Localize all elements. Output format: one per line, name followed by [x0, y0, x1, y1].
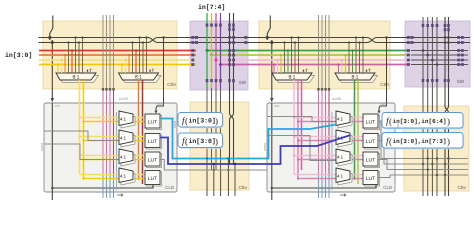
wire maroon tile1 vertical	[113, 90, 115, 176]
CBh1 M1 input drop dark a	[68, 43, 70, 74]
svg-text:LUT: LUT	[148, 139, 157, 145]
SW2 vertical wires from top	[422, 17, 424, 196]
CLB1 4:1 mux row3	[119, 149, 135, 166]
SW2 interior junction dots	[422, 49, 425, 52]
CLB2 4:1 mux row3	[336, 149, 352, 166]
svg-text:T: T	[89, 68, 92, 73]
CLB2 LUT row2	[363, 134, 380, 150]
CBh2 M2 input drop yellowgreen	[345, 55, 347, 73]
wire in6 magenta vertical	[215, 13, 217, 60]
arrow south tile2	[340, 194, 346, 197]
logic block CLB1 background	[44, 103, 177, 192]
CLB2 pink comb branches row1	[294, 117, 363, 119]
wire in2 pale yellow	[39, 59, 196, 61]
CLB1 LUT row3	[145, 152, 162, 168]
CBh bottom edge connector squares tile2	[317, 88, 330, 91]
svg-text:LUT: LUT	[148, 120, 157, 126]
junction diamond green	[205, 49, 209, 53]
arrow into CLB2 cin	[270, 98, 273, 103]
mux CBh1 M1 8:1 shadow	[59, 76, 99, 83]
mux CBh2 M1 8:1 shadow	[275, 76, 315, 83]
svg-text:LUT: LUT	[366, 176, 375, 182]
wire CBh1 M2 output dark red vertical	[142, 80, 144, 184]
svg-text:8:1: 8:1	[73, 75, 80, 81]
wire CBh2 M1 output pale pink comb vertical	[293, 80, 295, 175]
svg-text:in[3:0]: in[3:0]	[189, 138, 216, 145]
connection box CBh1 background	[43, 21, 177, 89]
wire LUT1 feedback to track1 tile1	[156, 38, 164, 114]
wire track crossover in CBh2	[367, 38, 377, 43]
wire CBh1 M1 output pale yellow comb vertical	[79, 80, 81, 175]
CBh1 M2 input drop pale yellow	[125, 60, 127, 73]
arrow south tile1	[117, 194, 123, 197]
wire in7 purple vertical	[220, 13, 222, 65]
SW2 horizontal continuation wires	[411, 50, 468, 52]
wire magenta track east of SW1	[221, 64, 411, 66]
CBh1 M2 input drop dark b	[139, 38, 141, 74]
CBh2 M1 input drop dark a	[284, 43, 286, 74]
wires north stubs tile1	[102, 15, 104, 90]
CBh2 M2 input drop dark b	[355, 38, 357, 74]
switch box SW2 background	[405, 21, 470, 87]
CLB1 west input wire a	[44, 131, 119, 141]
wire CBv1 dark blue crossing dots	[213, 163, 215, 165]
mux CBh1 M2 8:1 shadow	[121, 76, 161, 83]
wire CLB1 south exit	[51, 188, 53, 200]
wire dark blue LUT2 output	[160, 136, 350, 165]
svg-text:cin: cin	[55, 104, 60, 108]
CBh1 M1 input drop orange	[64, 55, 66, 73]
svg-text:in[7:4]: in[7:4]	[198, 4, 225, 11]
mux CBh2 M1 8:1 body	[272, 73, 312, 80]
CBv1 lower vertical wires	[206, 172, 208, 196]
CBh1 M1 input drop dark c	[78, 43, 80, 74]
svg-text:west: west	[381, 102, 388, 106]
junction diamond track2 x271.8	[270, 40, 274, 44]
svg-text:8:1: 8:1	[289, 75, 296, 81]
svg-text:CLB: CLB	[165, 185, 174, 190]
wire LUT4 feedback CLB1	[152, 185, 154, 188]
svg-text:8:1: 8:1	[352, 75, 359, 81]
wire yellowgreen track east of SW1	[212, 54, 411, 56]
mux CBh1 M2 T marker	[149, 69, 151, 71]
CBh1 M1 input drop pale yellow	[61, 60, 63, 73]
wire LUT1 feedback to track1 tile2	[379, 38, 387, 114]
f-box 3 f(in[3:0],in[6:4])	[382, 113, 464, 130]
wires north stubs tile2	[318, 15, 320, 90]
CBh2 M2 input drop dark d	[362, 38, 364, 74]
wire CBh2 M1 output pink comb vertical	[297, 80, 299, 179]
svg-text:4:1: 4:1	[120, 136, 127, 141]
CLB1 LUT row2	[145, 134, 162, 150]
junction diamond track2 x52.3	[50, 40, 54, 44]
mux CBh2 M2 8:1 shadow	[338, 76, 378, 83]
svg-text:LUT: LUT	[366, 120, 375, 126]
wire CBv1 light blue crossing dots	[206, 157, 208, 159]
CBh1 M2 input drop red	[135, 51, 137, 74]
CBh1 M1 input drop dark d	[82, 38, 84, 74]
CBh2 M2 input drop green	[352, 51, 354, 74]
svg-text:in[3:0],in[7:3]: in[3:0],in[7:3]	[393, 138, 447, 145]
junction dot CLB1 bottom	[51, 187, 53, 189]
mux CBh2 M1 T marker	[303, 69, 305, 71]
CLB2 4:1 mux row1	[336, 111, 352, 128]
CBh2 M1 input drop dark b	[291, 38, 293, 74]
wire CBh2 M1 output magenta vertical	[301, 80, 303, 170]
CBh2 M1 input drop dark d	[298, 38, 300, 74]
wire CLB2 south exit	[271, 188, 273, 200]
CLB2 west input wire a	[267, 117, 336, 122]
CLB1 4:1 mux row4	[119, 168, 135, 185]
svg-text:): )	[447, 116, 450, 126]
junction diamond purple to magenta	[219, 63, 223, 67]
svg-text:west: west	[158, 102, 165, 106]
mux CBh2 M2 8:1 body	[335, 73, 375, 80]
CBh2 M2 input drop dark c	[359, 43, 361, 74]
switch box SW1 background	[190, 21, 248, 90]
CBh1 M2 input drop orange	[128, 55, 130, 73]
wire horizontal track2	[39, 42, 149, 44]
SW2 squares on verticals top	[422, 24, 450, 31]
CLB1 LUT row1	[145, 114, 162, 130]
CBh bottom edge connector squares tile1	[102, 88, 115, 91]
arrow into CLB1 cin	[51, 98, 54, 103]
CLB1 4:1 mux row2	[119, 130, 135, 147]
svg-text:in[3:0]: in[3:0]	[5, 52, 32, 59]
junction dot CLB2 bottom	[271, 187, 273, 189]
CBh1 M2 input drop dark d	[146, 38, 148, 74]
svg-text:SW: SW	[239, 80, 247, 85]
CBh1 M2 input drop dark a	[132, 43, 134, 74]
wire in3 yellow	[39, 64, 196, 66]
wire light blue LUT1 output	[160, 119, 336, 159]
wire CBh2 M2 output green vertical	[354, 80, 356, 180]
wire in1 orange	[39, 54, 196, 56]
junction diamond track1 x267.3	[265, 35, 269, 39]
wire in5 yellowgreen vertical	[211, 13, 213, 55]
wire horizontal track1	[39, 37, 149, 39]
svg-text:4:1: 4:1	[120, 117, 127, 122]
svg-text:): )	[215, 116, 218, 126]
wires steel blue pair tile2	[331, 112, 333, 190]
CBh2 M2 input drop pale pink	[341, 60, 343, 73]
svg-text:west: west	[263, 142, 267, 151]
svg-text:north: north	[332, 96, 341, 101]
mux CBh1 M2 8:1 body	[119, 73, 159, 80]
svg-text:north: north	[119, 96, 128, 101]
SW2 squares on verticals bottom	[422, 79, 450, 82]
wire maroon tile2 vertical	[328, 90, 330, 176]
CLB2 pink comb branches row2	[294, 136, 363, 138]
CLB1 yellow comb branches row2	[80, 136, 146, 138]
svg-text:4:1: 4:1	[337, 117, 344, 122]
connection box CBh2 background	[259, 21, 390, 89]
svg-text:LUT: LUT	[366, 139, 375, 145]
CBh1 M2 input drop yellow	[121, 65, 123, 74]
CLB1 yellow comb branches row1	[80, 117, 146, 119]
wires south tile1 gray-blue	[102, 176, 104, 198]
wire gray east CLB1 to CLB2	[160, 160, 267, 171]
wire CBh1 M2 output orange vertical	[138, 80, 140, 180]
mux CBh1 M1 T marker	[87, 69, 89, 71]
CLB2 4:1 mux row4	[336, 168, 352, 185]
wires north tile2 pink verticals into CLB2	[318, 90, 320, 176]
junction diamond track1 x49.8	[48, 35, 52, 39]
SW1 switch squares	[191, 24, 247, 83]
CLB2 west input wire b	[267, 136, 336, 161]
svg-text:T: T	[305, 68, 308, 73]
wire CBh1 M1 output yellow comb vertical	[83, 80, 85, 179]
CBh1 M2 input drop dark c	[142, 43, 144, 74]
svg-text:CBv: CBv	[238, 185, 247, 190]
svg-text:SW: SW	[457, 79, 465, 84]
CLB1 yellow comb branches row3	[80, 155, 146, 157]
CLB2 LUT row3	[363, 152, 380, 168]
connection box CBv1 background	[190, 102, 249, 190]
wire LUT4 feedback CLB2	[375, 185, 377, 188]
f-box 2 f(in[3:0])	[178, 133, 224, 149]
wire vertical feed at left with jog	[50, 16, 53, 41]
CLB1 yellow comb branches row4	[80, 174, 146, 176]
CLB2 LUT row4	[363, 171, 380, 187]
junction diamond yellowgreen	[210, 53, 214, 57]
svg-text:LUT: LUT	[148, 158, 157, 164]
CLB1 LUT row4	[145, 171, 162, 187]
CBh1 M1 input drop dark b	[75, 38, 77, 74]
wire CLB1 internal left/bottom	[52, 103, 153, 188]
wire SW1 vertical continuation colored then gray	[206, 51, 208, 89]
svg-text:east: east	[396, 120, 400, 128]
svg-text:T: T	[368, 68, 371, 73]
CBh2 M1 input drop pale pink	[277, 60, 279, 73]
wire green track east of SW1	[207, 50, 410, 52]
svg-text:CLB: CLB	[383, 185, 392, 190]
svg-text:in[3:0],in[6:4]: in[3:0],in[6:4]	[393, 118, 447, 125]
wire CBh2 M2 output yellowgreen vertical	[357, 80, 359, 184]
CBv2 crossing dots	[427, 157, 429, 159]
CLB2 4:1 mux row2	[336, 130, 352, 147]
CBh2 M2 input drop dark a	[348, 43, 350, 74]
svg-text:LUT: LUT	[148, 176, 157, 182]
f-box 4 f(in[3:0],in[7:3])	[382, 133, 464, 150]
svg-text:8:1: 8:1	[135, 75, 142, 81]
CBh2 M1 input drop dark c	[294, 43, 296, 74]
wires steel blue pair tile1	[116, 112, 118, 190]
svg-text:4:1: 4:1	[337, 155, 344, 160]
svg-text:in[3:0]: in[3:0]	[189, 118, 216, 125]
junction diamond magenta vertical to pale pink	[214, 58, 218, 62]
svg-text:T: T	[152, 68, 155, 73]
wire CBv1 gray crossing dots	[213, 169, 215, 171]
svg-text:): )	[215, 136, 218, 146]
CLB2 pink comb branches row3	[294, 155, 363, 157]
wires south tile2 gray-blue	[318, 176, 320, 198]
svg-text:): )	[447, 136, 450, 146]
wire in4 green vertical	[206, 13, 208, 51]
mux CBh1 M1 8:1 body	[56, 73, 96, 80]
CBh2 M2 input drop magenta	[338, 65, 340, 74]
f-box 1 f(in[3:0])	[178, 113, 224, 129]
CBv2 dark vertical wires with twist	[444, 17, 446, 106]
svg-text:cin: cin	[275, 104, 280, 108]
mux CBh2 M2 T marker	[366, 69, 368, 71]
wire CLB2 internal left/bottom	[272, 103, 376, 188]
svg-text:CBh: CBh	[167, 82, 176, 87]
CBv2 horizontal gray wires from CLB2 LUT outputs	[378, 121, 468, 159]
wire CBv1 twist crossover	[230, 113, 234, 120]
wires north tile1 pink verticals into CLB1	[102, 90, 104, 176]
wire pale pink track east of SW1	[216, 59, 410, 61]
CBh1 M1 input drop yellow	[57, 65, 59, 74]
wire SW1 dark verticals	[229, 13, 231, 113]
SW2 switch squares tracks	[407, 36, 464, 66]
CLB2 LUT row1	[363, 114, 380, 130]
CBh2 M1 input drop green	[287, 51, 289, 74]
svg-text:CBh: CBh	[380, 82, 389, 87]
wire vertical feed tile2 with jog	[267, 16, 270, 41]
svg-text:west: west	[40, 142, 44, 151]
svg-text:CBv: CBv	[457, 185, 466, 190]
CBh2 M1 input drop magenta	[273, 65, 275, 74]
logic block CLB2 background	[267, 103, 395, 192]
wire in0 red	[39, 50, 196, 52]
CBh1 M1 input drop red	[71, 51, 73, 74]
connection box CBv2 background	[404, 106, 469, 191]
wire track crossover in CBh1	[148, 38, 158, 43]
svg-text:east: east	[173, 120, 177, 128]
svg-text:4:1: 4:1	[120, 155, 127, 160]
CBh2 M1 input drop yellowgreen	[280, 55, 282, 73]
svg-text:4:1: 4:1	[337, 174, 344, 179]
svg-text:LUT: LUT	[366, 158, 375, 164]
CLB1 west input wire b	[44, 144, 119, 160]
CLB2 pink comb branches row4	[294, 174, 363, 176]
CLB1 4:1 mux row1	[119, 111, 135, 128]
svg-text:4:1: 4:1	[120, 174, 127, 179]
